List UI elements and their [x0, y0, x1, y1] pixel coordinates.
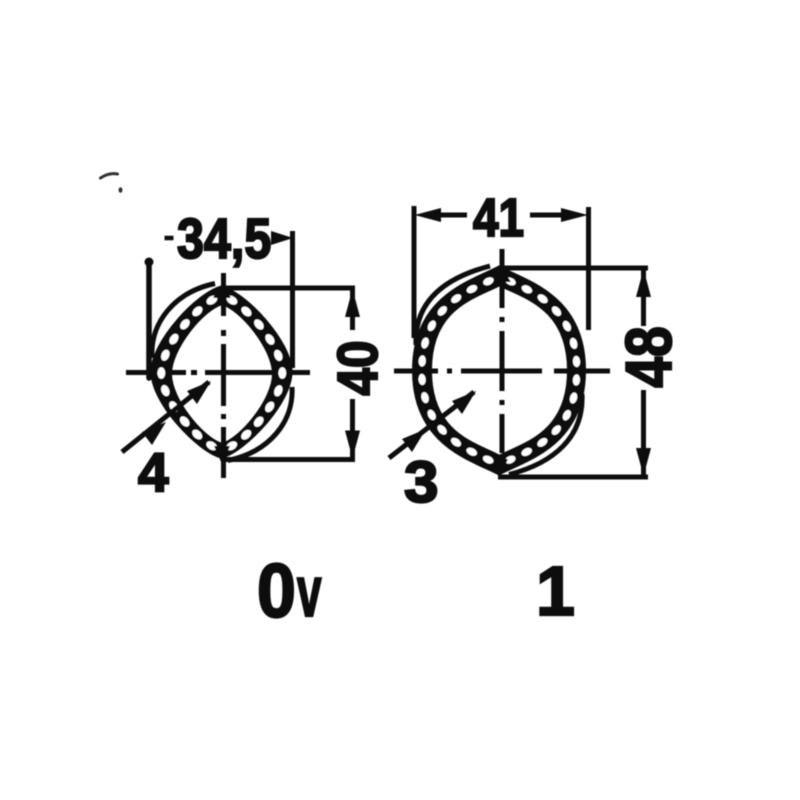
- right extra contour arc upper-left: [416, 266, 490, 345]
- left profile vertical centerline: [221, 273, 226, 478]
- dim 41 dimension line + arrows: [415, 208, 442, 222]
- right profile vertical centerline: [500, 249, 505, 497]
- dim 48 arrow up: [636, 269, 651, 297]
- dim 40 bottom line: [226, 457, 355, 462]
- dim 34,5 left extension line: [146, 262, 152, 378]
- right wall hatch pearls: [418, 276, 580, 466]
- dim 48 dimension line: [641, 268, 646, 326]
- svg-text:34,5: 34,5: [177, 207, 271, 271]
- scan smudge top-left: [101, 174, 123, 193]
- right tip spike bottom: [493, 459, 508, 477]
- left profile horizontal centerline: [126, 370, 310, 375]
- wall thickness leader right (3): [389, 392, 474, 458]
- dim 48 bottom line: [498, 475, 648, 480]
- left tip spike top: [213, 284, 231, 298]
- dim 48 top line: [500, 266, 648, 271]
- svg-text:41: 41: [473, 188, 524, 248]
- left wall hatch pearls: [157, 294, 286, 452]
- dim 34,5 right extension line: [290, 231, 295, 368]
- svg-text:1: 1: [536, 552, 575, 630]
- svg-text:3: 3: [404, 450, 439, 515]
- dim 41 left extension line: [412, 206, 417, 338]
- svg-text:0: 0: [257, 549, 296, 633]
- right profile horizontal centerline: [394, 369, 610, 374]
- dim 48 arrow down: [636, 448, 651, 476]
- dim 40 arrow down: [345, 431, 360, 459]
- right tip spike top: [493, 266, 511, 282]
- left extra contour arc lower-right: [228, 387, 292, 461]
- dim 40 top line: [225, 286, 355, 291]
- svg-text:40: 40: [327, 340, 390, 395]
- dim 34,5 arrow: [271, 231, 293, 245]
- wall thickness leader left (4): [122, 382, 209, 452]
- left tip spike bottom: [214, 446, 230, 464]
- svg-text:48: 48: [612, 326, 685, 387]
- right extra contour arc lower-right: [509, 394, 582, 475]
- dim 40 dimension line: [350, 288, 355, 330]
- dim 40 arrow up: [345, 289, 360, 317]
- svg-text:v: v: [297, 552, 322, 631]
- dim 34,5 tick: [165, 236, 174, 241]
- svg-text:4: 4: [138, 441, 169, 503]
- dim 41 right extension line: [586, 207, 591, 330]
- left extra contour arc upper-left: [152, 284, 215, 359]
- left tube wall (lemon ring, 0v profile): [153, 288, 290, 456]
- right tube wall (lemon ring, 1 profile): [415, 268, 584, 473]
